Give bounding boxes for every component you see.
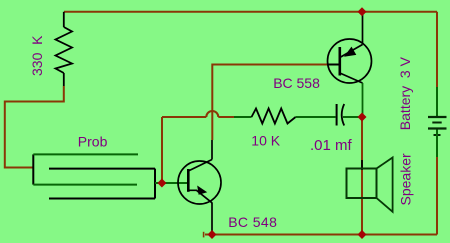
junction node Q1 emitter / bottom rail: [208, 230, 217, 239]
label .01 mf: [310, 137, 353, 154]
svg-text:.01 mf: .01 mf: [310, 137, 353, 154]
probe electrode upper: [33, 154, 138, 184]
wire bottom rail: [205, 234, 437, 236]
wire vertical feedback x162: [161, 117, 163, 183]
label Battery 3 V: [397, 56, 413, 130]
wire right rail lower: [436, 130, 438, 235]
wire horizontal y117 left segment: [162, 116, 206, 118]
junction node capacitor / Q2 collector / speaker: [358, 113, 367, 122]
svg-text:Speaker: Speaker: [398, 153, 414, 205]
wire hop over collector line: [206, 111, 218, 117]
label 10 K: [251, 132, 280, 148]
svg-text:BC 558: BC 558: [273, 75, 320, 91]
transistor Q2 BC 558: [327, 13, 372, 115]
junction node top rail / Q2 emitter: [358, 7, 367, 16]
label 330 K: [29, 35, 45, 76]
wire top rail: [64, 11, 437, 13]
svg-text:330 K: 330 K: [29, 35, 45, 76]
wire speaker branch: [361, 117, 363, 235]
wire left loop: [5, 86, 64, 168]
label Speaker: [398, 153, 414, 205]
battery B1 3V: [428, 117, 447, 135]
wire right rail upper: [436, 12, 438, 116]
wire Q1 collector to Q2 base: [212, 65, 327, 141]
svg-text:10 K: 10 K: [251, 132, 280, 148]
wire probe tap to Q1 base: [155, 182, 188, 184]
wire resistor to capacitor: [296, 116, 336, 118]
bottom rail left end tick: [203, 232, 205, 238]
label BC 558: [273, 75, 320, 91]
probe electrode lower: [49, 169, 155, 199]
wire hop to resistor lead: [218, 116, 251, 118]
speaker LS1: [347, 158, 393, 212]
junction node speaker / bottom rail: [358, 230, 367, 239]
svg-text:Prob: Prob: [78, 134, 108, 150]
svg-text:BC 548: BC 548: [228, 214, 277, 230]
label Prob: [78, 134, 108, 150]
junction node probe / Q1 base / feedback: [157, 179, 166, 188]
wire capacitor to node: [343, 116, 362, 118]
resistor R2 10 K: [252, 109, 296, 124]
transistor Q1 BC 548: [178, 140, 221, 231]
capacitor C1 .01 mf: [337, 104, 345, 126]
svg-text:Battery 3 V: Battery 3 V: [397, 56, 413, 130]
label BC 548: [228, 214, 277, 230]
resistor R1 330 K: [56, 12, 73, 86]
